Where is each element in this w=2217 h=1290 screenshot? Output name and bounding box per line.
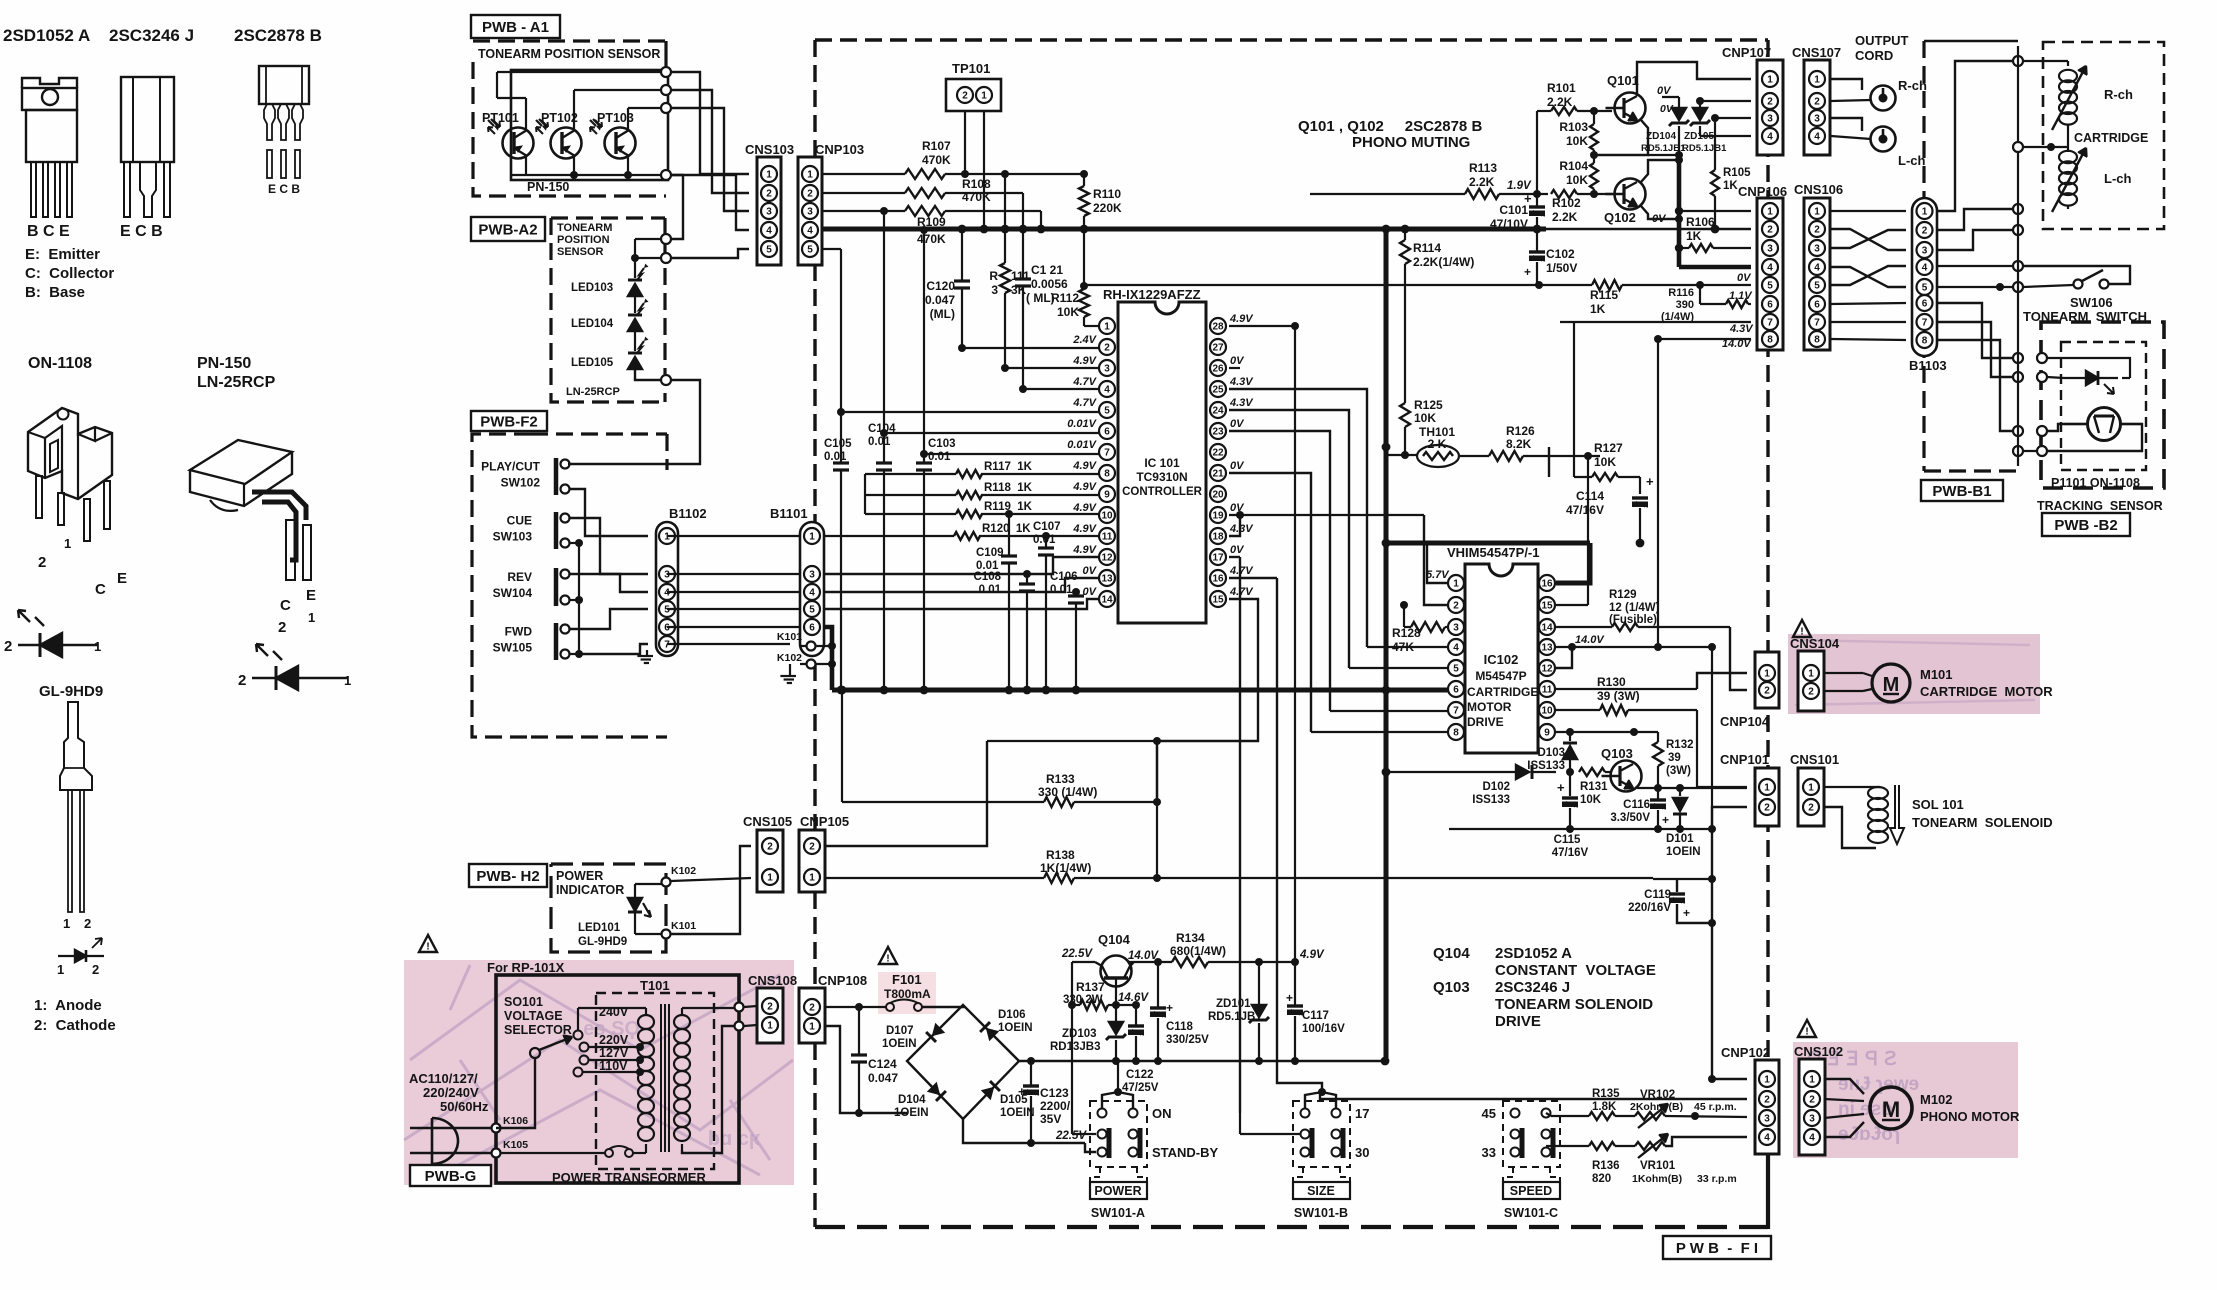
svg-text:4.9V: 4.9V — [1072, 523, 1097, 535]
svg-text:2: 2 — [1104, 342, 1110, 353]
board outline PWB-H2 power indicator — [551, 864, 666, 952]
svg-text:For RP-101X: For RP-101X — [487, 960, 565, 975]
svg-text:INDICATOR: INDICATOR — [556, 883, 624, 897]
connector CNP102 — [1721, 1045, 1779, 1154]
board label PWB-F2 — [471, 411, 547, 431]
svg-text:B1103: B1103 — [1909, 358, 1947, 373]
wire IC101 pin17 — [1229, 556, 1240, 558]
svg-text:4.9V: 4.9V — [1072, 544, 1097, 556]
svg-text:3: 3 — [1104, 363, 1110, 374]
IC102 pin 3 — [1448, 619, 1464, 635]
capacitor C104 — [868, 423, 896, 690]
wire R127 left riser x1574 — [1573, 322, 1575, 477]
wire secondary bottom to CNS108 pin1 — [682, 1022, 757, 1154]
svg-text:2: 2 — [807, 188, 813, 199]
wire Q104 emitter — [1131, 958, 1172, 966]
svg-text:10K: 10K — [1594, 455, 1616, 469]
connector CNS101 — [1790, 752, 1839, 826]
tracking sensor inner outline (dashed) — [2061, 342, 2146, 470]
diode D105 — [981, 1081, 1035, 1119]
svg-text:3: 3 — [1922, 245, 1928, 256]
wire cartridge L-ch bottom — [2023, 205, 2068, 209]
transistor Q104 — [1095, 932, 1135, 987]
svg-text:28: 28 — [1212, 321, 1224, 332]
resistor R116 — [1661, 285, 1751, 323]
wire LED101 to K102 — [635, 865, 696, 887]
svg-text:22: 22 — [1212, 447, 1224, 458]
svg-text:2: 2 — [766, 188, 772, 199]
IC101 pin voltage labels — [1067, 313, 1254, 598]
svg-text:D104: D104 — [898, 1094, 926, 1106]
wire IC101 pin28 4.9V — [1229, 322, 1299, 330]
resistor R113 — [1465, 161, 1499, 199]
wire SW101-A top common — [1102, 1061, 1133, 1108]
IC102 pin 11 — [1539, 681, 1555, 697]
svg-text:CONSTANT VOLTAGE: CONSTANT VOLTAGE — [1495, 962, 1656, 979]
IC102 pin 5 — [1448, 660, 1464, 676]
svg-text:1: Anode: 1: Anode — [34, 997, 102, 1014]
wire B1101 pin4 to IC101 pin13 — [825, 578, 1099, 592]
svg-text:14.0V: 14.0V — [1575, 634, 1605, 646]
svg-text:TONEARM SOLENOID: TONEARM SOLENOID — [1495, 996, 1653, 1013]
wire CNP107 pin3 row — [1711, 114, 1751, 122]
wire IC102 pin9 node — [1556, 728, 1638, 736]
svg-text:1K: 1K — [1590, 302, 1606, 316]
svg-text:2: 2 — [238, 672, 246, 689]
connector CNS105 — [743, 814, 792, 892]
pad K PWB-A2 edge — [661, 234, 671, 385]
svg-text:0V: 0V — [1737, 272, 1752, 284]
wire A2 pad to CNS103 pin5 — [671, 249, 749, 258]
svg-text:+: + — [1646, 474, 1654, 489]
svg-text:C1 21: C1 21 — [1031, 263, 1063, 277]
svg-text:1: 1 — [1453, 578, 1459, 589]
svg-text:CNS101: CNS101 — [1790, 752, 1839, 767]
wire A1 pad4 to CNS103 pin4 — [671, 175, 749, 230]
svg-text:1: 1 — [344, 673, 351, 688]
wire PT102 top feed — [574, 90, 666, 107]
svg-text:0.01: 0.01 — [868, 436, 891, 448]
svg-text:C116: C116 — [1623, 799, 1650, 811]
svg-text:LN-25RCP: LN-25RCP — [566, 386, 620, 398]
svg-text:E C B: E C B — [268, 182, 300, 196]
svg-text:IC102: IC102 — [1484, 652, 1519, 667]
svg-text:C117: C117 — [1302, 1010, 1329, 1022]
wire Q102 collector — [1641, 156, 1683, 182]
svg-text:4: 4 — [809, 587, 815, 598]
svg-text:2.4V: 2.4V — [1072, 334, 1097, 346]
wire B1103 pin6 to LED row — [1937, 303, 2023, 363]
board outline PWB-A1 (dashed) — [473, 41, 666, 196]
zener ZD105 — [1682, 101, 1727, 154]
svg-text:12: 12 — [1101, 552, 1113, 563]
svg-text:1: 1 — [809, 1021, 815, 1032]
wire K102 to CNS105 pin1 — [671, 878, 751, 881]
svg-text:CORD: CORD — [1855, 48, 1893, 63]
transistor Q101 — [1606, 73, 1646, 124]
svg-text:1: 1 — [1922, 206, 1928, 217]
IC101 pin 13 — [1099, 570, 1115, 586]
svg-text:23: 23 — [1212, 426, 1224, 437]
svg-text:6: 6 — [1814, 299, 1820, 310]
svg-text:8: 8 — [1104, 468, 1110, 479]
svg-text:Q101 , Q102 2SC2878 B: Q101 , Q102 2SC2878 B — [1298, 118, 1482, 135]
resistor R128 — [1392, 605, 1449, 654]
wire CNP108 pin1 down — [825, 1026, 907, 1117]
svg-text:ISS133: ISS133 — [1472, 794, 1510, 806]
resistor R120 — [954, 523, 1031, 540]
svg-text:6: 6 — [1104, 426, 1110, 437]
resistor R125 — [1400, 398, 1443, 459]
svg-text:2: Cathode: 2: Cathode — [34, 1017, 116, 1034]
resistor R119 — [956, 501, 1033, 518]
thermistor TH101 — [1386, 425, 1489, 467]
svg-text:25: 25 — [1212, 384, 1224, 395]
board outline PWB-G power transformer (solid heavy) — [487, 960, 739, 1185]
svg-text:LN-25RCP: LN-25RCP — [197, 374, 276, 391]
wire primary top 240V — [574, 1005, 647, 1040]
wire ground rail y829 — [1449, 825, 1716, 833]
svg-text:(ML): (ML) — [930, 307, 955, 321]
wire CNP107 pin2 row — [1696, 97, 1751, 105]
svg-text:2: 2 — [1453, 600, 1459, 611]
resistor R134 — [1170, 931, 1299, 967]
svg-text:R128: R128 — [1392, 626, 1421, 640]
svg-text:R114: R114 — [1413, 241, 1441, 255]
wire sensor return row — [2013, 446, 2042, 456]
svg-text:D107: D107 — [886, 1025, 914, 1037]
svg-text:10K: 10K — [1566, 173, 1588, 187]
AC plug symbol — [410, 1118, 496, 1164]
capacitor C116 — [1610, 788, 1669, 829]
phototransistor PT103 — [590, 111, 636, 159]
IC101 pin 12 — [1099, 549, 1115, 565]
svg-text:+: + — [1166, 1001, 1173, 1015]
wire IC101 pin5 row — [837, 408, 1099, 416]
svg-text:11: 11 — [1542, 684, 1553, 695]
IC102 pin 1 — [1448, 575, 1464, 591]
IC101 pin 3 — [1099, 360, 1115, 376]
svg-text:2: 2 — [767, 1001, 773, 1012]
svg-text:SIZE: SIZE — [1307, 1184, 1335, 1198]
board outline PWB-F2 (dashed) — [472, 434, 667, 737]
svg-text:LED103: LED103 — [571, 282, 613, 294]
IC101 pin 23 — [1210, 423, 1226, 439]
wire SW103 top to B1102 pin3 — [570, 518, 648, 574]
svg-text:4: 4 — [1453, 642, 1459, 653]
capacitor C114 — [1566, 474, 1654, 543]
svg-text:1: 1 — [1764, 668, 1770, 679]
svg-text:0V: 0V — [1083, 586, 1098, 598]
wire IC101 pin18 — [1229, 515, 1240, 536]
IC102 pin 10 — [1539, 702, 1555, 718]
wire LED return — [2047, 377, 2064, 378]
board label PWB-B1 — [1921, 480, 2003, 501]
wire SW101-B top common — [1305, 1088, 1336, 1108]
svg-text:OUTPUT: OUTPUT — [1855, 33, 1909, 48]
wire Q101 collector to CNP107 pin1 — [1637, 62, 1751, 96]
connector CNP101 — [1720, 752, 1779, 826]
IC102 pin 16 — [1539, 575, 1555, 591]
svg-text:4.9V: 4.9V — [1072, 355, 1097, 367]
warning triangle F101 — [879, 947, 897, 964]
svg-text:39 (3W): 39 (3W) — [1597, 689, 1640, 703]
svg-text:CNP101: CNP101 — [1720, 752, 1769, 767]
svg-text:2: 2 — [1767, 96, 1773, 107]
wire IC102 pin15 riser — [1556, 452, 1592, 605]
svg-text:2: 2 — [38, 554, 46, 571]
wire C114 bottom to heavy bus — [1636, 539, 1645, 548]
svg-text:4.3V: 4.3V — [1229, 397, 1254, 409]
jack R-ch — [1871, 78, 1927, 111]
svg-text:CARTRIDGE MOTOR: CARTRIDGE MOTOR — [1920, 684, 2053, 699]
svg-text:2: 2 — [1808, 686, 1814, 697]
capacitor C119 — [1628, 879, 1712, 923]
svg-text:2: 2 — [1922, 225, 1928, 236]
svg-text:14: 14 — [1541, 622, 1553, 633]
wire B1103 pin8 to sensor — [1937, 340, 2023, 436]
wire IC101 pin24 — [1229, 410, 1349, 668]
svg-text:D103: D103 — [1538, 747, 1566, 759]
resistor R112 — [1051, 229, 1089, 326]
connector CNP105 — [799, 814, 849, 892]
capacitor C103 — [916, 438, 956, 690]
svg-text:SOL 101: SOL 101 — [1912, 797, 1964, 812]
diode D103 — [1527, 732, 1577, 772]
wire CNS106 pin2 cross to B1103 pin3 — [1831, 229, 1906, 250]
svg-text:18: 18 — [1212, 531, 1224, 542]
wire A1 pad3 to CNS103 pin3 — [671, 108, 749, 211]
svg-text:C118: C118 — [1166, 1021, 1193, 1033]
svg-text:D101: D101 — [1666, 833, 1694, 845]
svg-text:R101: R101 — [1547, 81, 1576, 95]
svg-text:1: 1 — [767, 872, 773, 883]
IC102 pin 13 — [1539, 639, 1555, 655]
note SO101 voltage selector — [504, 995, 572, 1037]
IC101 pin 10 — [1099, 507, 1115, 523]
svg-text:10K: 10K — [1566, 134, 1588, 148]
wire vertical x841 CNP103 pin5 — [840, 249, 842, 462]
svg-text:4: 4 — [1104, 384, 1110, 395]
svg-text:470K: 470K — [922, 153, 951, 167]
svg-text:VOLTAGE: VOLTAGE — [504, 1009, 563, 1023]
bus main 0V rail y229 — [822, 225, 1751, 234]
wire secondary top to CNS108 pin2 — [682, 1003, 757, 1012]
wire vertical pin17 down — [1239, 557, 1241, 1113]
svg-text:C102: C102 — [1546, 247, 1575, 261]
tonearm switch SW106 — [2023, 270, 2147, 324]
capacitor C107 — [1033, 521, 1061, 690]
wire A1 emitters feed down to A2 — [671, 175, 683, 239]
svg-text:1: 1 — [1808, 782, 1814, 793]
capacitor C102 — [1524, 229, 1577, 285]
svg-text:SW104: SW104 — [493, 586, 533, 600]
svg-text:2: 2 — [1764, 1094, 1770, 1105]
warning triangle CNS104 — [1793, 620, 1811, 637]
diode D102 — [1382, 765, 1574, 806]
wire K105 to primary — [501, 1146, 646, 1157]
svg-text:E: Emitter: E: Emitter — [25, 246, 100, 263]
IC101 pin 6 — [1099, 423, 1115, 439]
board label PWB-B2 — [2042, 513, 2130, 536]
svg-text:5: 5 — [1104, 405, 1110, 416]
diode symbol anode cathode — [57, 938, 104, 977]
wire vertical x884 CNP103 pin3 — [883, 211, 885, 462]
capacitor C122 — [1122, 1005, 1159, 1094]
svg-text:K102: K102 — [671, 865, 696, 877]
svg-text:20: 20 — [1212, 489, 1224, 500]
ground B1102 — [646, 650, 648, 656]
wire IC102 pin11 — [1556, 673, 1747, 689]
svg-text:2SC3246 J: 2SC3246 J — [1495, 979, 1570, 996]
svg-text:L-ch: L-ch — [1898, 153, 1926, 168]
svg-text:1: 1 — [809, 872, 815, 883]
wire Q103 emitter node — [1637, 784, 1747, 792]
svg-text:330 2W: 330 2W — [1063, 994, 1103, 1006]
svg-text:SELECTOR: SELECTOR — [504, 1023, 572, 1037]
IC101 pin 25 — [1210, 381, 1226, 397]
wire CNS106 pin5 cross to B1103 pin4 — [1831, 266, 1906, 285]
wire B1101 pin6 heavy to bus — [825, 627, 832, 690]
svg-text:B C E: B C E — [27, 223, 70, 240]
capacitor C118 — [1150, 962, 1209, 1061]
svg-text:MOTOR: MOTOR — [1467, 700, 1512, 714]
svg-text:8: 8 — [1453, 727, 1459, 738]
svg-text:2 K: 2 K — [1428, 437, 1447, 451]
svg-text:1: 1 — [94, 639, 101, 654]
svg-text:12 (1/4W): 12 (1/4W) — [1609, 602, 1660, 614]
svg-text:K102: K102 — [777, 652, 802, 664]
svg-text:CNS107: CNS107 — [1792, 45, 1841, 60]
zener ZD104 — [1641, 97, 1689, 155]
svg-text:10K: 10K — [1414, 411, 1436, 425]
svg-text:8: 8 — [1814, 334, 1820, 345]
connector B1102 — [656, 506, 707, 656]
svg-text:3: 3 — [1767, 243, 1773, 254]
svg-text:RD5.1JB1: RD5.1JB1 — [1208, 1011, 1262, 1023]
svg-text:PT102: PT102 — [541, 111, 578, 125]
svg-text:ʞɔ ɒd: ʞɔ ɒd — [708, 1128, 760, 1150]
svg-text:SENSOR: SENSOR — [557, 246, 604, 258]
svg-text:5: 5 — [807, 244, 813, 255]
capacitor C109 — [976, 510, 1017, 690]
svg-text:CNS102: CNS102 — [1794, 1044, 1843, 1059]
test point TP101 — [946, 61, 1001, 111]
svg-text:ZD101: ZD101 — [1216, 998, 1251, 1010]
wire vertical x924 CNP103 pin4 — [923, 230, 925, 462]
svg-text:CNP106: CNP106 — [1738, 184, 1787, 199]
wire bridge minus to switch — [963, 1119, 1096, 1152]
svg-text:FWD: FWD — [505, 625, 533, 639]
wire cartridge node — [2013, 124, 2068, 152]
wire CNP105 pin1 row R138 to C119 — [825, 874, 1653, 882]
cartridge coil R-ch — [2052, 66, 2133, 130]
resistor R104 — [1559, 155, 1598, 194]
pad K101 — [777, 631, 836, 651]
wire CNP103 pin4 row — [823, 226, 928, 234]
svg-text:2: 2 — [1809, 1094, 1815, 1105]
svg-text:RH-IX1229AFZZ: RH-IX1229AFZZ — [1103, 287, 1201, 302]
svg-text:0.01: 0.01 — [979, 584, 1002, 596]
wire IC102 pin13 14.0V node — [1556, 643, 1662, 668]
bus heavy rail y690 to IC102 pin6 — [832, 686, 1449, 695]
ground K102 — [780, 664, 796, 683]
switch SW101-A power — [1090, 1101, 1219, 1220]
svg-text:K106: K106 — [503, 1115, 528, 1127]
svg-text:1: 1 — [981, 90, 987, 101]
resistor R108 — [905, 177, 991, 204]
wire CNS106 pin3 cross to B1103 pin2 — [1831, 230, 1906, 248]
shaded region CNS102 phono motor — [1793, 1042, 2018, 1158]
svg-text:D106: D106 — [998, 1009, 1026, 1021]
svg-text:SW101-C: SW101-C — [1504, 1206, 1558, 1220]
resistor R110 — [1079, 174, 1122, 229]
svg-text:R102: R102 — [1552, 196, 1581, 210]
svg-text:2Kohm (B): 2Kohm (B) — [1630, 1101, 1683, 1113]
board label PWB-F1 — [1663, 1236, 1771, 1259]
svg-text:R138: R138 — [1046, 848, 1075, 862]
IC101 pin 5 — [1099, 402, 1115, 418]
svg-text:1: 1 — [63, 916, 70, 931]
svg-text:RD13JB3: RD13JB3 — [1050, 1041, 1101, 1053]
wire cartridge R-ch coil — [2023, 61, 2068, 66]
wire PT return — [2047, 424, 2142, 451]
svg-text:1/50V: 1/50V — [1546, 261, 1577, 275]
svg-text:!: ! — [1800, 626, 1804, 638]
wire IC101 pin19 long — [1229, 511, 1424, 519]
svg-text:5: 5 — [1767, 280, 1773, 291]
wire B1103 pin5 to SW106 — [1937, 282, 2073, 292]
capacitor C101 — [1490, 191, 1545, 231]
svg-text:8.2K: 8.2K — [1506, 437, 1532, 451]
svg-text:2: 2 — [1808, 802, 1814, 813]
svg-text:0V: 0V — [1230, 418, 1245, 430]
switch SW105 FWD — [493, 623, 570, 660]
svg-text:4.7V: 4.7V — [1229, 586, 1254, 598]
wire CNP106 pin7 row — [1560, 321, 1751, 323]
svg-text:REV: REV — [507, 570, 532, 584]
svg-text:2SD1052 A: 2SD1052 A — [3, 26, 90, 45]
svg-text:4: 4 — [1814, 262, 1820, 273]
wire CNP102 pin2 row — [1320, 1092, 1747, 1099]
svg-text:2: 2 — [767, 841, 773, 852]
svg-text:R137: R137 — [1076, 980, 1105, 994]
svg-text:AC110/127/: AC110/127/ — [409, 1071, 478, 1086]
svg-text:PHONO MOTOR: PHONO MOTOR — [1920, 1109, 2020, 1124]
svg-text:1Kohm(B): 1Kohm(B) — [1632, 1173, 1682, 1185]
svg-text:10K: 10K — [1057, 305, 1079, 319]
tracking sensor LED — [2064, 371, 2118, 394]
wire CNP106 pin1 row — [1675, 207, 1751, 215]
svg-text:R131: R131 — [1580, 781, 1608, 793]
resistor R130 — [1556, 675, 1697, 715]
wire IC102 pin2 node — [1400, 601, 1449, 609]
svg-text:2SC3246 J: 2SC3246 J — [109, 26, 194, 45]
svg-text:CNP107: CNP107 — [1722, 45, 1771, 60]
bus heavy muting x1679 — [1679, 155, 1751, 267]
svg-text:2: 2 — [809, 1002, 815, 1013]
LED LED103 — [571, 258, 649, 296]
wire IC101 pin16 — [1229, 577, 1277, 579]
svg-text:220V: 220V — [599, 1033, 629, 1047]
wire PT101 top feed — [497, 71, 666, 73]
resistor R133 — [1038, 772, 1097, 807]
svg-text:R-ch: R-ch — [1898, 78, 1927, 93]
wire CNP103 pin5 down — [823, 248, 841, 250]
svg-text:STAND-BY: STAND-BY — [1152, 1145, 1219, 1160]
wire bridge plus rail y1061 — [1019, 1057, 1389, 1066]
svg-text:C: C — [95, 581, 106, 598]
